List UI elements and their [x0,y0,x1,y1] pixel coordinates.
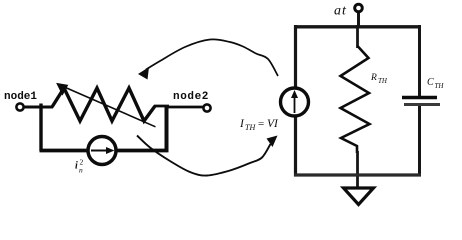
wire right branch of left loop [165,107,169,151]
svg-text:node2: node2 [173,91,209,103]
curved arrow bottom (left circuit to right circuit) [137,136,271,176]
capacitor C_TH [402,96,437,99]
svg-text:at: at [334,4,347,19]
curved arrow top (right circuit to left circuit) [146,39,278,76]
current source i_n [88,137,116,165]
wire bottom rail of left loop [40,149,169,153]
svg-text:R: R [370,73,377,83]
svg-text:TH: TH [378,77,388,85]
right circuit: top rail [294,25,421,28]
svg-text:=: = [258,118,264,130]
wire middle branch bottom to ground [356,151,359,188]
current source I_TH [281,88,309,116]
svg-text:node1: node1 [4,91,37,103]
node2 terminal [203,104,210,111]
svg-text:VI: VI [267,118,279,130]
wire right side of right circuit [418,25,421,97]
variable resistor arrow [62,86,156,127]
resistor (variable) zigzag [52,88,155,121]
svg-text:TH: TH [435,82,445,90]
wire node1 to resistor [24,106,53,109]
wire below capacitor [418,106,421,177]
terminal dT [357,12,360,27]
resistor R_TH [341,46,370,153]
svg-text:i: i [75,161,78,172]
node1 terminal [16,103,23,110]
svg-text:C: C [427,77,434,88]
bottom rail of right circuit [294,173,421,176]
wire left branch [39,104,42,152]
ground [344,188,374,205]
wire resistor to node2 [154,106,203,107]
svg-text:TH: TH [245,123,256,132]
wire middle branch top [356,25,359,48]
wire left side of right circuit [294,25,297,87]
svg-text:n: n [79,166,83,175]
